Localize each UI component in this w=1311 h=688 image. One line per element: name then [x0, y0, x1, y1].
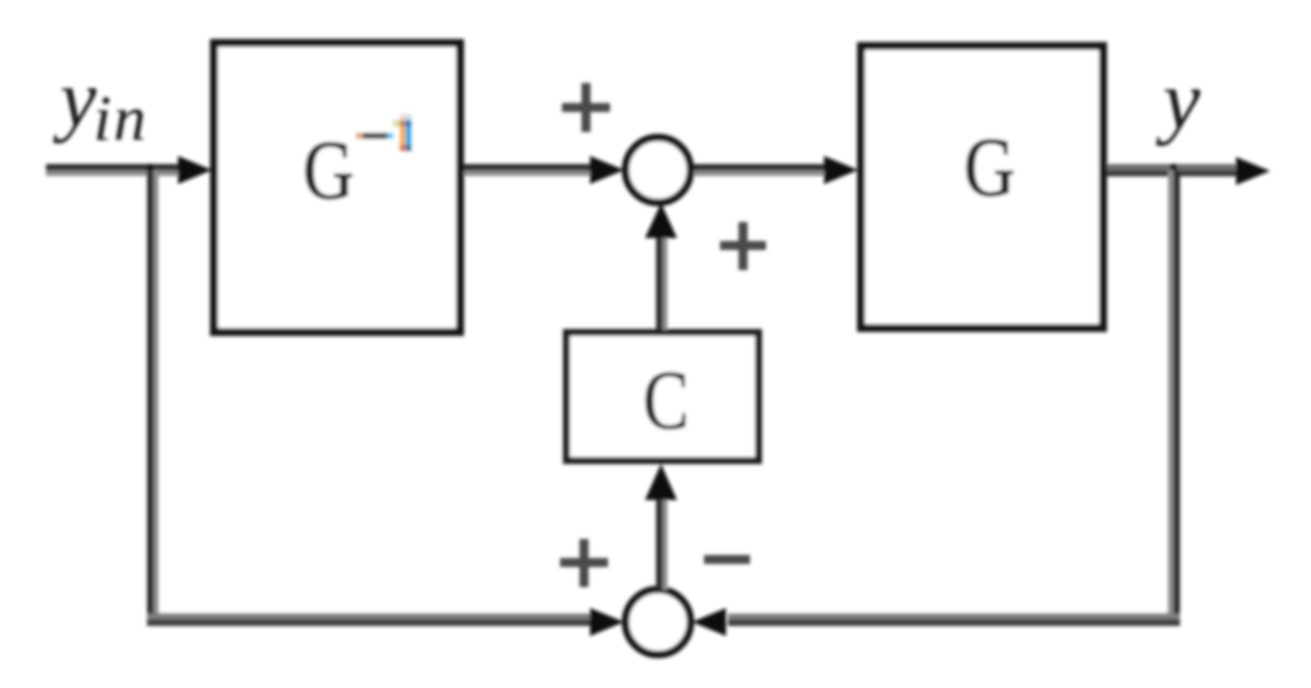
arrowhead into block G [824, 156, 858, 184]
wire feedback bottom-right horizontal [728, 614, 1180, 620]
block G [861, 46, 1103, 328]
arrowhead output [1236, 157, 1270, 185]
node branch left (junction of input and feedback) [147, 164, 154, 176]
plus sign left of S2 [560, 558, 608, 567]
wire feedback bottom-left horizontal [147, 614, 590, 620]
wire from block C up to summing junction S1 [656, 232, 663, 330]
arrowhead into summing junction S1 left [590, 156, 624, 184]
arrowhead into S1 bottom [645, 203, 677, 238]
wire from G-inverse to summing junction S1 [464, 164, 594, 171]
wire feedback left vertical [147, 170, 154, 619]
block G-inverse [214, 43, 460, 332]
wire feedback right vertical [1168, 170, 1174, 619]
arrowhead into summing junction S2 right [692, 608, 726, 636]
svg-text:G: G [964, 120, 1015, 213]
wire input horizontal [46, 164, 182, 171]
wire from S2 up to block C [656, 478, 663, 590]
wire from S1 to block G [694, 164, 824, 171]
summing junction S1 [626, 138, 691, 203]
summing junction S2 [626, 590, 691, 655]
arrowhead into summing junction S2 left [590, 608, 624, 636]
minus sign right of S2 [704, 555, 750, 564]
wire output horizontal [1107, 164, 1237, 171]
svg-text:G: G [303, 123, 354, 216]
plus sign right of S1 bottom input [720, 241, 766, 250]
arrowhead into block C bottom [645, 464, 677, 500]
exponent minus of G-inverse [356, 133, 363, 139]
arrowhead into block G-inverse [178, 156, 212, 184]
plus sign above S1 input [562, 103, 610, 112]
node branch right (output to feedback) [1170, 164, 1177, 177]
exponent digit 1 of G-inverse (colored subpixel artifact) [400, 114, 406, 120]
block C [567, 333, 759, 461]
svg-text:C: C [643, 354, 689, 447]
